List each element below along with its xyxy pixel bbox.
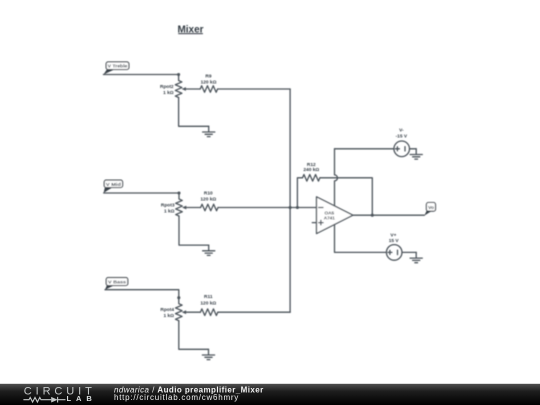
svg-text:Vo: Vo bbox=[428, 205, 434, 211]
svg-text:V-: V- bbox=[399, 128, 404, 134]
svg-text:LAB: LAB bbox=[67, 394, 93, 403]
svg-text:A741: A741 bbox=[324, 215, 336, 220]
svg-text:Rpot3: Rpot3 bbox=[161, 202, 175, 208]
svg-text:1 kΩ: 1 kΩ bbox=[164, 208, 175, 214]
svg-text:240 kΩ: 240 kΩ bbox=[303, 167, 319, 173]
svg-text:V Treble: V Treble bbox=[108, 64, 128, 70]
svg-text:V Mid: V Mid bbox=[106, 182, 121, 188]
svg-text:15 V: 15 V bbox=[389, 238, 400, 244]
svg-text:120 kΩ: 120 kΩ bbox=[200, 301, 216, 307]
svg-text:120 kΩ: 120 kΩ bbox=[201, 79, 217, 85]
svg-text:V Bass: V Bass bbox=[108, 280, 126, 286]
svg-text:Rpot2: Rpot2 bbox=[160, 84, 174, 90]
svg-text:120 kΩ: 120 kΩ bbox=[200, 197, 216, 203]
svg-text:R10: R10 bbox=[204, 191, 213, 197]
svg-text:Rpot4: Rpot4 bbox=[160, 307, 174, 313]
svg-text:http://circuitlab.com/cw6hmry: http://circuitlab.com/cw6hmry bbox=[114, 393, 238, 402]
svg-text:1 kΩ: 1 kΩ bbox=[163, 313, 174, 319]
svg-text:R11: R11 bbox=[204, 294, 213, 300]
svg-text:R9: R9 bbox=[205, 73, 211, 79]
svg-text:-15 V: -15 V bbox=[396, 134, 408, 140]
svg-text:V+: V+ bbox=[390, 233, 396, 239]
svg-text:1 kΩ: 1 kΩ bbox=[163, 90, 174, 96]
